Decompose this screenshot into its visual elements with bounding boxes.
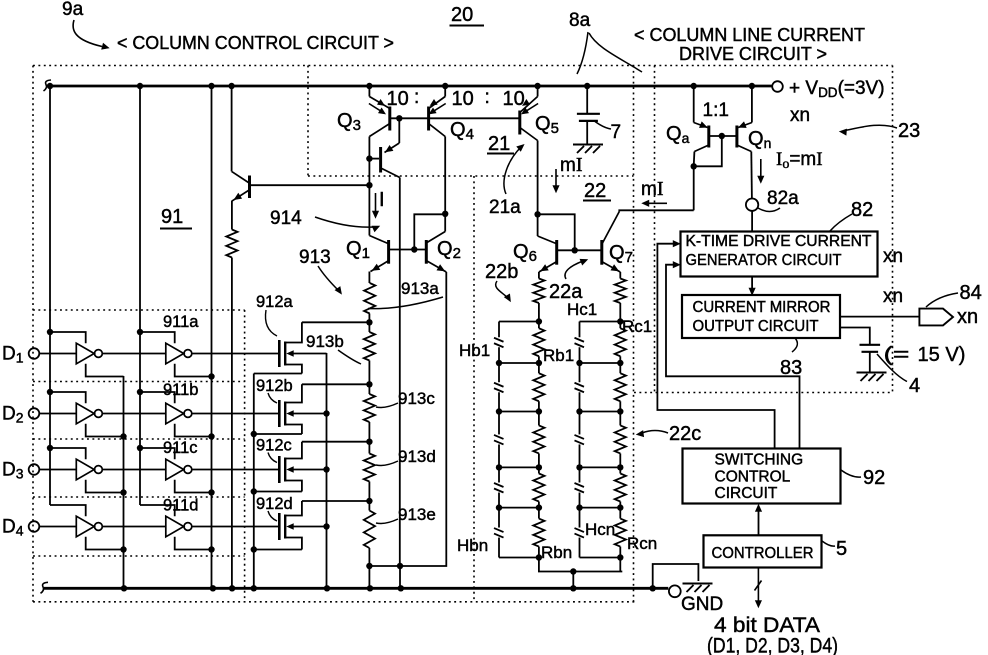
- supply tap inverter2 row 3: [137, 445, 143, 451]
- ground tap inverter2 row 3: [175, 480, 212, 493]
- wire D2 input to inverter: [39, 413, 76, 415]
- transistor Q1: [369, 236, 388, 244]
- supply tap inverter1 row 2: [47, 389, 53, 395]
- resistor 913b: [368, 322, 370, 332]
- svg-text:Hcn: Hcn: [585, 520, 615, 539]
- wire CM box output to flag 84: [840, 316, 919, 318]
- resistor 22a left (Q6 emitter): [538, 272, 540, 279]
- ladder Hb rail: [498, 322, 500, 338]
- arrow Io current: [760, 159, 762, 179]
- transistor 914 bias: [231, 86, 233, 171]
- svg-text:DRIVE CIRCUIT >: DRIVE CIRCUIT >: [679, 43, 827, 64]
- svg-text:< COLUMN CONTROL CIRCUIT >: < COLUMN CONTROL CIRCUIT >: [117, 32, 394, 53]
- svg-text:914: 914: [270, 208, 302, 229]
- input terminal D2: [29, 408, 40, 419]
- svg-text:Rc1: Rc1: [622, 317, 652, 336]
- bus cut hook left: [44, 80, 52, 91]
- wire rail inverter1 supply x=50: [49, 86, 51, 505]
- ground tap inverter1 row 2: [86, 424, 124, 437]
- transistor Q4: [444, 88, 446, 97]
- wire drain 912d to chain node: [302, 500, 370, 502]
- svg-text:CONTROLLER: CONTROLLER: [712, 545, 814, 562]
- ground symbol capacitor 7: [573, 144, 603, 146]
- svg-text:84: 84: [960, 282, 982, 304]
- svg-text:+ VDD(=3V): + VDD(=3V): [789, 78, 885, 100]
- wire 82a to K-TIME box: [751, 211, 753, 232]
- arrow 4 bit DATA: [757, 568, 759, 603]
- wire drain 912c to chain node: [302, 441, 370, 443]
- svg-text:22b: 22b: [485, 261, 518, 283]
- transistor Q5: [537, 88, 539, 97]
- resistor 913d: [368, 442, 370, 454]
- wire Qa Qn base rail: [709, 135, 737, 137]
- ground tap inverter1 row 1: [86, 364, 124, 377]
- wire source 912a to source rail: [254, 373, 302, 375]
- node dots on GND bus: [121, 585, 127, 591]
- dotted box 9a column control circuit: [33, 65, 893, 67]
- wire source 912d to source rail: [254, 549, 302, 551]
- wire MOSFET body rail x=326.5: [326, 353, 328, 588]
- supply tap inverter1 row 3: [47, 445, 53, 451]
- wire GND bus: [44, 587, 668, 590]
- ladder c rungs: [580, 321, 621, 323]
- wire inverter1 to inverter2 row 3: [102, 469, 165, 471]
- svg-text:< COLUMN LINE CURRENT: < COLUMN LINE CURRENT: [634, 24, 865, 45]
- svg-text:22: 22: [584, 180, 606, 202]
- wire Q4 collector to Q2 collector x=445: [444, 137, 446, 232]
- svg-text:912c: 912c: [256, 437, 292, 455]
- wire Q3 Q4 Q5 base rail: [390, 117, 520, 119]
- wire Q6 Q7 base rail: [558, 249, 601, 251]
- svg-text:Hbn: Hbn: [457, 536, 488, 555]
- MOSFET 912a: [278, 340, 281, 367]
- ladder Rc rail resistors: [619, 322, 621, 329]
- svg-text:GENERATOR CIRCUIT: GENERATOR CIRCUIT: [686, 252, 842, 269]
- svg-text:82a: 82a: [767, 188, 799, 209]
- wire Q3 collector line down to Q1: [368, 137, 370, 236]
- svg-text:8a: 8a: [569, 10, 591, 31]
- svg-text:91: 91: [161, 206, 183, 228]
- wire diode connection to Q1 Q2 bases: [414, 214, 445, 249]
- svg-text:21: 21: [488, 133, 510, 155]
- wire node to Q6 Q7 base feed: [538, 214, 575, 250]
- svg-text:mI: mI: [560, 154, 583, 176]
- svg-text:OUTPUT CIRCUIT: OUTPUT CIRCUIT: [693, 318, 820, 335]
- MOSFET 912c: [278, 456, 281, 483]
- svg-text:7: 7: [611, 122, 622, 143]
- svg-text:SWITCHING: SWITCHING: [715, 452, 804, 469]
- ladder bottom join: [539, 558, 622, 572]
- svg-text:9a: 9a: [62, 0, 84, 20]
- wire emitter resistor to GND bus: [231, 258, 233, 589]
- transistor Q6: [538, 236, 556, 244]
- svg-text:CIRCUIT: CIRCUIT: [715, 485, 778, 502]
- wire rail inverter2 supply x=140: [139, 86, 141, 505]
- wire rail x=211.5: [211, 86, 213, 588]
- svg-text:Rcn: Rcn: [627, 534, 657, 553]
- wire inverter2 output to MOSFET gate row 2: [192, 413, 278, 415]
- svg-text:5: 5: [836, 538, 847, 560]
- wire Q5 collector down to node 21a: [537, 141, 539, 237]
- svg-text:I: I: [379, 189, 385, 211]
- node dots on VDD bus: [47, 83, 53, 89]
- svg-text:(=: (=: [884, 343, 910, 366]
- svg-text:912d: 912d: [256, 495, 293, 513]
- svg-text:10: 10: [452, 88, 474, 110]
- wire Qa diode connection: [691, 163, 697, 169]
- input terminal D1: [29, 348, 40, 359]
- svg-text:(D1, D2, D3, D4): (D1, D2, D3, D4): [707, 635, 838, 655]
- input terminal D4: [29, 521, 40, 532]
- svg-text:82: 82: [851, 199, 873, 221]
- svg-text:913d: 913d: [398, 447, 436, 466]
- svg-text::: :: [485, 87, 490, 108]
- wire inverter2 output to MOSFET gate row 4: [192, 526, 278, 528]
- ground tap inverter1 row 3: [86, 480, 124, 493]
- svg-text:20: 20: [451, 4, 473, 26]
- svg-text:10: 10: [503, 88, 525, 110]
- wire drain 912b to chain node: [302, 383, 370, 385]
- dotted box 8a current mirror section: [307, 66, 309, 177]
- transistor Qa: [693, 88, 695, 123]
- wire CM box to capacitor 4: [840, 328, 870, 345]
- block CURRENT MIRROR OUTPUT CIRCUIT: [682, 295, 840, 338]
- resistor 22a right (Q7 emitter): [619, 272, 621, 279]
- ground symbol at GND terminal: [683, 583, 713, 585]
- wire Q2 emitter down x=446.3: [369, 272, 446, 566]
- wire drain 912a to chain node: [302, 321, 370, 323]
- svg-text:CURRENT MIRROR: CURRENT MIRROR: [693, 299, 831, 316]
- svg-text:913c: 913c: [398, 389, 435, 408]
- body arrow 912c: [289, 469, 327, 471]
- inverter 911d stage 2: [166, 516, 184, 537]
- MOSFET 912b: [278, 400, 281, 427]
- svg-text::: :: [414, 87, 419, 108]
- svg-text:913e: 913e: [398, 505, 436, 524]
- inverter 911b stage 2: [166, 403, 184, 424]
- dotted row boxes 911 area: [33, 309, 245, 311]
- svg-text:1:1: 1:1: [703, 100, 729, 121]
- resistor 913a: [368, 272, 370, 284]
- wire source 912c to source rail: [254, 491, 302, 493]
- svg-text:15 V): 15 V): [918, 343, 966, 366]
- resistor 913e: [368, 501, 370, 511]
- svg-text:4: 4: [909, 375, 920, 397]
- terminal 82a: [746, 199, 758, 211]
- inverter 911a stage 1: [76, 343, 94, 364]
- svg-text:911a: 911a: [163, 313, 199, 331]
- ground tap inverter2 row 2: [175, 424, 212, 437]
- inverter 911b stage 1: [76, 403, 94, 424]
- ladder Hc rail: [579, 322, 581, 338]
- bus cut hook left gnd: [41, 582, 49, 593]
- body arrow 912b: [289, 413, 327, 415]
- svg-text:xn: xn: [883, 286, 903, 307]
- dotted box 23 output section: [654, 66, 656, 393]
- body arrow 912d: [289, 526, 327, 528]
- ground symbol capacitor 4: [857, 372, 887, 374]
- wire cascode collector down x=400: [399, 178, 401, 567]
- svg-text:xn: xn: [883, 246, 903, 267]
- cascode transistor 914a: [379, 147, 382, 173]
- wire Q7 collector to mI wire: [619, 210, 693, 211]
- svg-text:Hc1: Hc1: [567, 300, 597, 319]
- capacitor 4: [860, 344, 881, 346]
- ground tap inverter1 row 4: [86, 537, 124, 550]
- svg-text:mI: mI: [641, 178, 664, 200]
- supply tap inverter1 row 1: [47, 329, 53, 335]
- svg-text:21a: 21a: [489, 197, 521, 218]
- wire base of bias transistor to node 914: [251, 184, 369, 186]
- wire inverter2 output to MOSFET gate row 3: [192, 469, 278, 471]
- arrow K-TIME to CURRENT MIRROR: [751, 277, 753, 291]
- wire Qa collector down to mI wire: [693, 166, 695, 210]
- transistor Q2: [425, 240, 428, 264]
- svg-text:913: 913: [299, 247, 331, 268]
- MOSFET 912d: [278, 513, 281, 540]
- wire D4 input to inverter: [39, 526, 76, 528]
- transistor Q3: [368, 88, 370, 97]
- transistor Qn: [751, 88, 753, 123]
- resistor 913c: [368, 384, 370, 394]
- dotted box 22 ladder section: [473, 176, 475, 602]
- pointer from 8a: [577, 32, 588, 74]
- svg-text:912b: 912b: [256, 377, 293, 395]
- supply tap inverter1 row 4: [50, 505, 86, 516]
- svg-text:Hb1: Hb1: [459, 341, 490, 360]
- pointer arrow from 9a: [73, 20, 102, 47]
- block CONTROLLER: [704, 535, 822, 567]
- terminal VDD: [772, 81, 783, 92]
- svg-text:22c: 22c: [669, 423, 701, 445]
- node dots on 913 chain: [366, 319, 372, 325]
- svg-text:CONTROL: CONTROL: [715, 469, 791, 486]
- ground tap inverter2 row 4: [175, 537, 212, 550]
- wire Q1 Q2 base rail: [390, 249, 426, 251]
- ground tap inverter2 row 1: [175, 364, 212, 377]
- wire K-TIME input 1 from switching box: [657, 244, 774, 449]
- arrow CONTROLLER to SWITCHING box: [758, 510, 760, 536]
- block SWITCHING CONTROL CIRCUIT: [683, 449, 841, 504]
- svg-text:GND: GND: [681, 594, 723, 615]
- svg-text:92: 92: [863, 467, 885, 489]
- wire GND hook to ground symbol: [653, 564, 699, 588]
- wire K-TIME input 2 from switching box: [666, 265, 800, 449]
- wire source 912b to source rail: [254, 433, 302, 435]
- block K-TIME DRIVE CURRENT GENERATOR CIRCUIT: [681, 232, 878, 277]
- inverter 911a stage 2: [166, 343, 184, 364]
- svg-text:10: 10: [387, 88, 409, 110]
- inverter 911c stage 2: [166, 459, 184, 480]
- supply tap inverter2 row 2: [137, 389, 143, 395]
- capacitor 7: [586, 86, 588, 113]
- body arrow 912a: [289, 353, 327, 355]
- svg-text:911b: 911b: [163, 381, 198, 399]
- input terminal D3: [29, 464, 40, 475]
- transistor Q7: [600, 240, 603, 265]
- svg-text:913a: 913a: [401, 279, 439, 298]
- svg-text:K-TIME DRIVE CURRENT: K-TIME DRIVE CURRENT: [686, 233, 873, 250]
- svg-text:xn: xn: [790, 105, 810, 126]
- wire VDD bus: [47, 85, 772, 88]
- ladder Rb rail resistors: [538, 322, 540, 329]
- supply tap inverter2 row 1: [137, 329, 143, 335]
- wire D3 input to inverter: [39, 469, 76, 471]
- svg-text:Rbn: Rbn: [541, 543, 572, 562]
- ladder b rungs: [499, 321, 539, 323]
- svg-text:Rb1: Rb1: [543, 346, 574, 365]
- EL elements Hc1..Hcn (double slash): [575, 338, 585, 342]
- wire inverter1 to inverter2 row 4: [102, 526, 165, 528]
- svg-text:913b: 913b: [306, 332, 344, 351]
- wire rail inverter1 ground x=123.5: [123, 376, 125, 588]
- resistor in 91 block: [231, 201, 233, 230]
- wire MOSFET source rail x=253.8: [253, 374, 255, 589]
- wire drops to GND from bottom node: [368, 566, 370, 588]
- supply tap inverter2 row 4: [140, 505, 175, 516]
- flag terminal 84: [919, 309, 953, 326]
- terminal GND circle: [669, 585, 681, 597]
- wire inverter2 output to MOSFET gate row 1: [192, 353, 278, 355]
- wire inverter1 to inverter2 row 1: [102, 353, 165, 355]
- wire D1 input to inverter: [39, 353, 76, 355]
- inverter 911c stage 1: [76, 459, 94, 480]
- wire inverter1 to inverter2 row 2: [102, 413, 165, 415]
- svg-text:23: 23: [898, 120, 920, 142]
- EL elements Hb1..Hbn (double slash): [494, 338, 504, 342]
- svg-text:xn: xn: [957, 306, 978, 328]
- inverter 911d stage 1: [76, 516, 94, 537]
- svg-text:912a: 912a: [256, 293, 294, 311]
